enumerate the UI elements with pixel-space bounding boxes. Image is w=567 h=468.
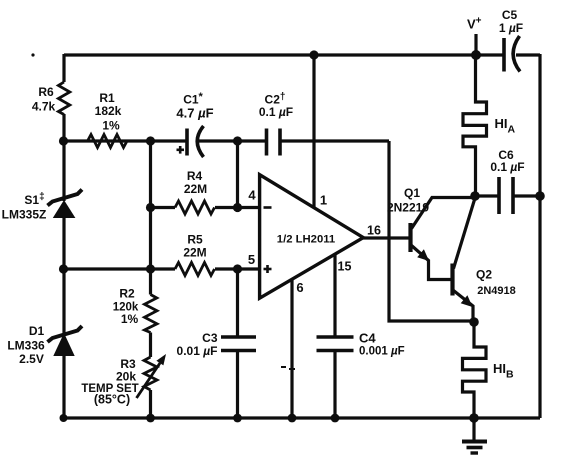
svg-text:1 µF: 1 µF bbox=[499, 21, 523, 35]
svg-text:0.001 µF: 0.001 µF bbox=[359, 346, 405, 358]
svg-text:22M: 22M bbox=[184, 182, 207, 196]
svg-text:5: 5 bbox=[248, 252, 255, 267]
svg-text:C1*: C1* bbox=[183, 91, 203, 107]
svg-text:4.7k: 4.7k bbox=[32, 100, 56, 114]
svg-text:HIA: HIA bbox=[495, 116, 516, 136]
svg-text:2.5V: 2.5V bbox=[19, 352, 44, 366]
svg-text:R6: R6 bbox=[38, 85, 54, 99]
svg-text:Q2: Q2 bbox=[476, 268, 492, 282]
svg-text:R2: R2 bbox=[119, 287, 135, 301]
svg-text:D1: D1 bbox=[29, 324, 45, 338]
svg-text:1%: 1% bbox=[121, 312, 139, 326]
svg-text:6: 6 bbox=[296, 280, 303, 295]
svg-text:LM335Z: LM335Z bbox=[2, 208, 47, 222]
svg-text:R4: R4 bbox=[187, 169, 203, 183]
svg-text:20k: 20k bbox=[116, 370, 136, 384]
svg-text:15: 15 bbox=[338, 260, 352, 274]
svg-text:(85°C): (85°C) bbox=[94, 393, 130, 407]
svg-text:182k: 182k bbox=[95, 104, 122, 118]
svg-text:LM336: LM336 bbox=[7, 339, 45, 353]
svg-text:16: 16 bbox=[367, 224, 381, 238]
svg-text:C5: C5 bbox=[502, 8, 518, 22]
svg-text:HIB: HIB bbox=[493, 361, 514, 381]
svg-text:0.01 µF: 0.01 µF bbox=[177, 344, 218, 358]
svg-text:1%: 1% bbox=[102, 119, 120, 133]
svg-text:Q1: Q1 bbox=[404, 186, 420, 200]
svg-text:V+: V+ bbox=[467, 16, 482, 32]
svg-text:2N4918: 2N4918 bbox=[477, 285, 516, 297]
svg-text:0.1 µF: 0.1 µF bbox=[490, 160, 524, 174]
svg-text:1: 1 bbox=[320, 193, 327, 208]
svg-text:R1: R1 bbox=[99, 91, 115, 105]
svg-text:R5: R5 bbox=[187, 233, 203, 247]
svg-text:4.7 µF: 4.7 µF bbox=[176, 106, 213, 121]
svg-text:0.1 µF: 0.1 µF bbox=[259, 105, 293, 119]
svg-text:1/2 LH2011: 1/2 LH2011 bbox=[277, 234, 335, 246]
svg-text:C3: C3 bbox=[202, 331, 218, 345]
svg-text:2N2219: 2N2219 bbox=[387, 201, 429, 215]
svg-text:S1‡: S1‡ bbox=[24, 192, 44, 208]
svg-text:22M: 22M bbox=[183, 246, 206, 260]
svg-text:4: 4 bbox=[248, 188, 256, 203]
svg-text:C4: C4 bbox=[359, 331, 376, 346]
